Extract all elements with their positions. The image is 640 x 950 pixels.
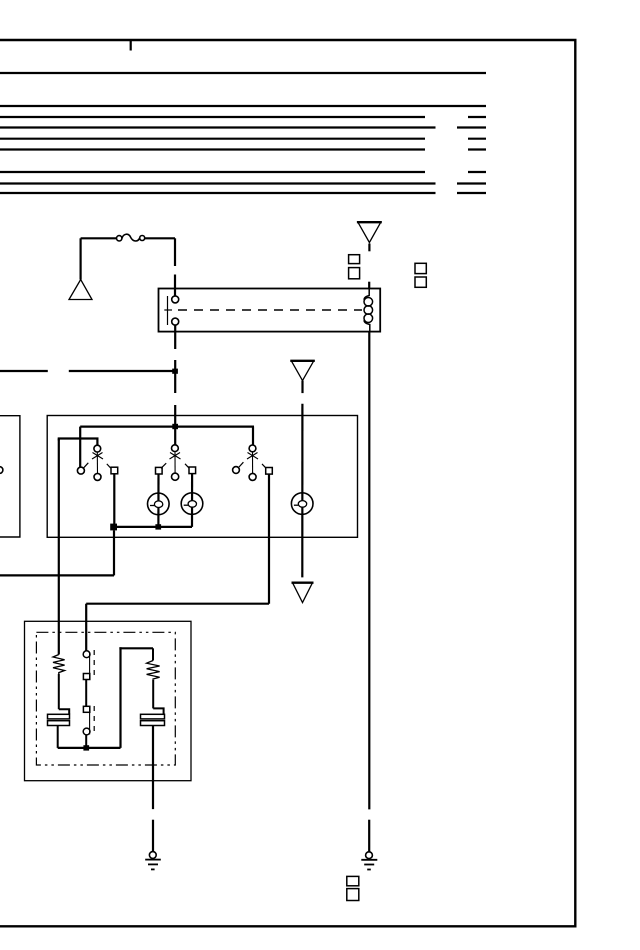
off-page connector triangle down B bbox=[291, 361, 314, 381]
wire right pin to lamp bbox=[191, 474, 193, 527]
wire relay contact output bbox=[174, 325, 176, 349]
connector square A1 bbox=[349, 255, 360, 264]
wire pin4 to junction bbox=[85, 735, 87, 748]
off-page connector triangle down A bbox=[358, 222, 381, 242]
connector pin 3 bbox=[83, 706, 89, 712]
relay box U1 bbox=[159, 289, 381, 332]
wire segment into box bbox=[174, 405, 176, 427]
node square junction bbox=[110, 524, 117, 531]
switch S1 common terminal bbox=[94, 445, 101, 452]
fuse F1 bbox=[117, 234, 145, 241]
wire lamp bottom bus bbox=[114, 526, 193, 528]
node junction bbox=[155, 524, 161, 529]
connector square C1b bbox=[347, 876, 359, 885]
switch S3 blade bbox=[252, 452, 254, 473]
wire left feeder down bbox=[58, 439, 60, 655]
wire ground lead left bbox=[152, 820, 154, 852]
wire square-junction down bbox=[113, 530, 115, 575]
wire C1 exit bbox=[57, 726, 59, 748]
wire ground lead right bbox=[368, 820, 370, 852]
switch S3 right pin bbox=[266, 468, 273, 475]
wire fuse right lead bbox=[145, 237, 175, 239]
wire left pin to lamp bbox=[157, 474, 159, 527]
switch S3 blade X bbox=[247, 453, 258, 460]
ground G2 bbox=[361, 852, 377, 870]
connector dashed line bbox=[93, 706, 95, 736]
lamp E3 bbox=[291, 493, 313, 515]
left partial box bbox=[0, 416, 20, 537]
bus wire 4 bbox=[0, 126, 436, 128]
bus wire 8 stub bbox=[457, 182, 486, 184]
ground G1 bbox=[145, 852, 161, 870]
off-page connector triangle up bbox=[69, 280, 92, 300]
node junction bbox=[172, 369, 178, 374]
wire stub below triangle B bbox=[301, 381, 303, 394]
resistor R1 bbox=[53, 655, 65, 675]
wire down to off-page arrow bbox=[79, 238, 81, 279]
wire pin2 to pin3 bbox=[85, 680, 87, 707]
wire R1 to C1 bbox=[58, 674, 60, 709]
wire U link bbox=[59, 439, 98, 446]
off-page connector triangle down C bbox=[293, 583, 313, 603]
wire horizontal from left edge bbox=[0, 370, 48, 372]
relay contact terminal lower bbox=[172, 318, 179, 325]
bus wire 6 stub bbox=[468, 148, 486, 150]
switch S2 lower terminal bbox=[172, 473, 179, 480]
bus wire 5 bbox=[0, 138, 425, 140]
component box (noise suppressor) bbox=[25, 621, 192, 780]
resistor R2 bbox=[147, 661, 160, 680]
bus wire 7 bbox=[0, 171, 425, 173]
wire to R2 bbox=[152, 648, 154, 660]
wire right branch top bbox=[119, 647, 153, 649]
wire through lamp E3 bbox=[301, 404, 303, 578]
bus wire 2 bbox=[0, 105, 486, 107]
tick bbox=[185, 464, 189, 468]
connector mating line bbox=[89, 707, 91, 735]
wire to middle switch common bbox=[174, 427, 176, 445]
relay actuation dashed link bbox=[178, 309, 362, 311]
capacitor C2 bottom plate bbox=[141, 721, 165, 726]
switch S1 left contact bbox=[77, 467, 84, 474]
connector pin 1 bbox=[83, 651, 90, 658]
wire C1 entry step bbox=[59, 709, 69, 714]
bus wire 3 stub bbox=[468, 116, 486, 118]
wire main distribution bbox=[80, 426, 254, 428]
shield dash-dot box bbox=[36, 632, 175, 765]
bus wire 7 stub bbox=[468, 171, 486, 173]
terminal fragment at edge bbox=[0, 467, 3, 474]
wire right pin path horizontal bbox=[86, 603, 269, 605]
lamp E1 bbox=[148, 493, 170, 515]
switch S2 left pin bbox=[156, 467, 163, 474]
node junction bbox=[172, 424, 178, 429]
tick bbox=[161, 463, 166, 468]
wire left exit bbox=[0, 574, 114, 576]
wire bottom link bbox=[58, 747, 121, 749]
wire right branch riser bbox=[119, 647, 121, 748]
wire into relay coil bbox=[368, 282, 370, 289]
switch S3 common terminal bbox=[249, 445, 256, 452]
connector square B2 bbox=[415, 277, 426, 287]
tick mark bbox=[130, 41, 132, 51]
tick bbox=[262, 464, 266, 468]
bus wire 1 bbox=[0, 72, 486, 74]
wire right pin down bbox=[113, 474, 115, 524]
switch assembly box bbox=[47, 416, 357, 538]
bus wire 5 stub bbox=[468, 138, 486, 140]
wire fuse left lead bbox=[81, 237, 117, 239]
connector square B1 bbox=[415, 263, 426, 273]
switch S1 blade X bbox=[92, 453, 103, 460]
relay contact blade bbox=[167, 296, 169, 325]
wire C2 entry step bbox=[153, 708, 163, 714]
switch S1 right pin bbox=[111, 467, 118, 474]
wire R2 to C2 bbox=[152, 680, 154, 709]
relay coil L1 bbox=[364, 289, 373, 332]
wire C2 exit to ground bbox=[152, 726, 154, 810]
switch S2 blade X bbox=[170, 453, 181, 460]
tick bbox=[107, 464, 111, 468]
wire right pin down bbox=[268, 474, 270, 604]
wire down to component box connector bbox=[85, 604, 87, 651]
wire to left switch left contact bbox=[79, 427, 81, 467]
bus wire 8 bbox=[0, 182, 436, 184]
wire coil return long bbox=[368, 332, 370, 810]
wire horizontal to junction bbox=[69, 370, 173, 372]
tick bbox=[84, 463, 89, 468]
connector pin 4 bbox=[83, 728, 90, 735]
lamp E2 bbox=[181, 493, 203, 515]
bus wire 9 bbox=[0, 192, 436, 194]
capacitor C1 top plate bbox=[48, 714, 70, 719]
connector pin 2 bbox=[83, 674, 89, 680]
bus wire 6 bbox=[0, 148, 425, 150]
wire stub below triangle A bbox=[368, 244, 370, 252]
relay contact terminal upper bbox=[172, 296, 179, 303]
connector square A2 bbox=[349, 268, 360, 279]
wire to right switch common bbox=[252, 427, 254, 445]
switch S1 lower terminal bbox=[94, 473, 101, 480]
switch S2 common terminal bbox=[172, 445, 179, 452]
connector square C2b bbox=[347, 889, 359, 901]
capacitor C1 bottom plate bbox=[48, 721, 70, 726]
bus wire 9 stub bbox=[457, 192, 486, 194]
bus wire 4 stub bbox=[457, 126, 486, 128]
node junction bbox=[83, 745, 89, 750]
tick bbox=[239, 462, 244, 467]
switch S3 left contact bbox=[233, 467, 240, 474]
switch S1 blade bbox=[96, 452, 98, 473]
switch S2 blade bbox=[174, 452, 176, 473]
wire fuse to relay lower segment bbox=[174, 275, 176, 296]
switch S2 right pin bbox=[189, 467, 196, 474]
connector dashed line bbox=[93, 650, 95, 679]
wire segment bbox=[174, 360, 176, 393]
switch S3 lower terminal bbox=[249, 473, 256, 480]
relay contact tick bbox=[164, 309, 172, 311]
capacitor C2 top plate bbox=[141, 714, 165, 719]
connector mating line bbox=[89, 653, 91, 681]
bus wire 3 bbox=[0, 116, 425, 118]
wire fuse to relay bbox=[174, 238, 176, 266]
